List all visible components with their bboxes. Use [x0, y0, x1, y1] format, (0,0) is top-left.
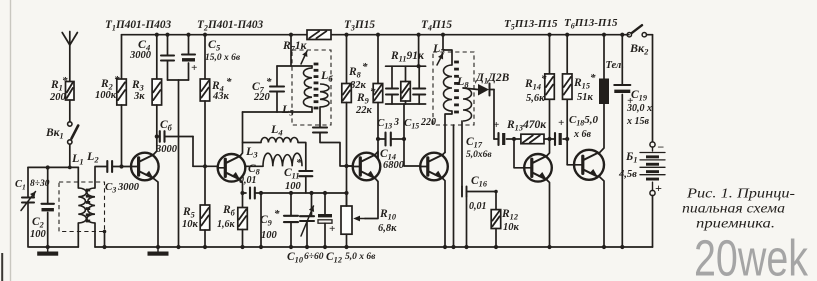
capacitor C1 variable — [27, 168, 29, 198]
wire T4 emitter down — [443, 178, 445, 247]
svg-text:Тел.: Тел. — [606, 60, 624, 71]
transistor T3 — [353, 153, 381, 181]
wire group to T4 base — [403, 104, 405, 166]
wire tank bottom — [277, 111, 312, 113]
shield box L1 L2 — [59, 182, 105, 232]
svg-text:+: + — [558, 117, 564, 129]
svg-text:5,0 х 6в: 5,0 х 6в — [345, 252, 376, 262]
wiper arrow R10 — [356, 218, 365, 220]
transistor T2 — [218, 154, 246, 182]
wire diode down to detector node — [493, 90, 495, 140]
wire to T5 base — [514, 139, 524, 168]
wire T3 base — [347, 165, 353, 167]
wire T6 base — [567, 164, 575, 166]
switch Vk2 — [627, 33, 631, 37]
svg-text:0,01: 0,01 — [239, 175, 257, 186]
inductor L7 — [444, 65, 453, 111]
capacitor C10 variable — [311, 193, 313, 216]
resistor R12 — [495, 192, 497, 210]
inductor L5 — [303, 68, 312, 107]
svg-text:3: 3 — [393, 117, 399, 128]
capacitor C18 electrolytic — [547, 137, 551, 141]
wire T6 emitter down — [598, 176, 604, 247]
svg-text:*: * — [590, 72, 596, 84]
resistor R7 — [307, 30, 331, 40]
svg-text:*: * — [541, 73, 547, 85]
svg-text:43к: 43к — [212, 91, 230, 102]
wire C4 C5 junction drop — [168, 79, 189, 81]
core L5-L6 — [314, 63, 319, 66]
svg-text:Д1Д2В: Д1Д2В — [475, 72, 510, 86]
capacitor C7 — [276, 92, 278, 113]
svg-text:100к: 100к — [95, 90, 117, 101]
svg-text:51к: 51к — [577, 92, 594, 103]
wire drop at 261 — [260, 193, 262, 247]
svg-text:3000: 3000 — [129, 50, 152, 61]
wire T2 emitter down — [240, 180, 242, 193]
svg-text:*: * — [362, 61, 368, 73]
ground under C2 — [47, 247, 49, 252]
bias group C13 R11 C15 — [386, 65, 426, 67]
core L1-L2 — [86, 189, 90, 192]
wire AGC row — [261, 192, 347, 194]
inductor L6 — [320, 84, 329, 107]
wire top supply rail — [122, 34, 307, 36]
capacitor C6 — [159, 131, 161, 142]
capacitor C19 electrolytic — [620, 33, 624, 37]
scan artifact faint line — [10, 0, 12, 281]
svg-text:х 6в: х 6в — [573, 129, 592, 140]
wire bottom ground rail — [29, 246, 78, 248]
capacitor C14 — [378, 138, 386, 140]
svg-text:3к: 3к — [133, 91, 145, 102]
transistor T1 — [131, 153, 159, 181]
capacitor C16 — [461, 187, 463, 197]
resistor R3 — [155, 33, 159, 37]
svg-text:*: * — [226, 76, 232, 88]
core L7-L8 — [454, 61, 459, 64]
wire tank top row — [28, 166, 78, 168]
capacitor C11 — [305, 145, 307, 171]
wire tank top to rail — [277, 65, 312, 67]
wire T2 base row — [193, 165, 218, 167]
IF transformer 1 shield box — [292, 50, 331, 125]
potentiometer R10 — [341, 206, 352, 234]
wire T4 collector — [443, 152, 445, 154]
resistor R9 — [376, 33, 380, 37]
svg-text:Рис. 1. Принци-: Рис. 1. Принци- — [686, 187, 796, 202]
svg-text:+: + — [191, 62, 197, 74]
capacitor C12 electrolytic — [324, 193, 326, 215]
resistor R14 — [547, 33, 551, 37]
resistor R4 — [203, 33, 207, 37]
svg-text:*: * — [370, 86, 376, 98]
capacitor C15 — [418, 66, 420, 88]
wire T1 collector — [153, 151, 157, 155]
capacitor C13 — [391, 66, 393, 88]
wire T3 collector up — [375, 152, 378, 159]
resistor R1 — [66, 82, 75, 101]
capacitor C4 — [165, 33, 169, 37]
svg-text:100: 100 — [285, 181, 302, 192]
svg-text:82к: 82к — [350, 80, 367, 91]
tuning arrow L7 — [437, 54, 443, 66]
wire T3 emitter to R10 wiper — [365, 178, 378, 218]
svg-text:R71к: R71к — [282, 40, 308, 54]
svg-text:10к: 10к — [503, 222, 520, 233]
resistor R13 — [521, 134, 544, 144]
wire battery column — [652, 35, 654, 142]
wire shield ground drop — [104, 232, 106, 248]
wire L8 bottom down — [461, 121, 463, 187]
svg-text:−: − — [657, 140, 664, 154]
svg-text:200: 200 — [49, 92, 67, 103]
svg-text:22к: 22к — [355, 105, 373, 116]
svg-text:4,5в: 4,5в — [618, 169, 637, 180]
inductor L3 — [246, 165, 264, 167]
svg-text:+: + — [655, 181, 662, 195]
transistor T4 — [420, 153, 448, 181]
wire T5 collector up — [547, 99, 550, 156]
svg-text:пиальная схема: пиальная схема — [682, 202, 785, 217]
wire T1 base — [112, 166, 131, 168]
capacitor C17 electrolytic — [497, 133, 499, 145]
svg-text:*: * — [296, 157, 302, 169]
capacitor C3 — [106, 161, 108, 172]
resistor R6 — [242, 193, 244, 208]
svg-text:*: * — [114, 74, 120, 86]
svg-text:5,0х6в: 5,0х6в — [466, 150, 492, 160]
capacitor C5 electrolytic — [186, 33, 190, 37]
tuning arrow L5 — [301, 51, 307, 64]
inductor L8 — [463, 88, 472, 121]
svg-text:3000: 3000 — [155, 144, 178, 155]
inductor L1 — [77, 167, 79, 188]
svg-text:20wek: 20wek — [694, 230, 808, 281]
svg-text:+: + — [493, 119, 499, 131]
svg-text:*: * — [62, 75, 68, 87]
svg-text:100: 100 — [261, 230, 278, 241]
svg-text:220: 220 — [420, 117, 436, 128]
svg-text:10к: 10к — [182, 219, 199, 230]
wire T5 emitter down — [547, 180, 550, 247]
svg-text:5,6к: 5,6к — [526, 93, 545, 104]
inductor L2 — [95, 167, 107, 189]
wire group feed from rail — [417, 33, 421, 37]
svg-text:8÷30: 8÷30 — [30, 179, 50, 189]
svg-text:Т4П15: Т4П15 — [421, 19, 452, 33]
diode D1 D2V — [463, 88, 478, 90]
transistor T5 — [524, 154, 552, 182]
headphone Tel — [602, 33, 606, 37]
svg-text:Т1П401-П403: Т1П401-П403 — [105, 19, 172, 33]
resistor R8 — [344, 33, 348, 37]
wire L4 right to C11 column — [298, 143, 306, 146]
svg-text:15,0 х 6в: 15,0 х 6в — [205, 53, 241, 63]
wire T2 collector to tank — [243, 111, 278, 113]
resistor R5 — [204, 166, 206, 205]
svg-text:*: * — [274, 208, 280, 220]
svg-text:100: 100 — [30, 229, 47, 240]
capacitor C9 — [290, 193, 292, 216]
svg-text:220: 220 — [253, 92, 271, 103]
ground under T1 — [157, 247, 159, 252]
svg-text:6,8к: 6,8к — [378, 223, 397, 234]
svg-text:30,0 х: 30,0 х — [626, 103, 652, 114]
wire shield2 ground drop — [453, 125, 455, 247]
svg-text:0,01: 0,01 — [469, 201, 487, 212]
wire T1 emitter down — [153, 178, 158, 247]
capacitor C8 — [243, 192, 247, 194]
resistor R2 — [121, 35, 123, 79]
capacitor C2 — [47, 168, 49, 204]
svg-text:С185,0: С185,0 — [569, 114, 598, 128]
resistor R11 — [401, 82, 411, 102]
battery B1 — [650, 142, 655, 147]
wire T6 collector up — [598, 104, 604, 154]
wire T2 collector up — [240, 112, 242, 156]
svg-text:R13470к: R13470к — [506, 119, 547, 133]
svg-text:*: * — [266, 76, 272, 88]
antenna W1 — [69, 32, 71, 82]
svg-text:3000: 3000 — [117, 182, 140, 193]
svg-text:+: + — [329, 223, 335, 235]
svg-text:6÷60: 6÷60 — [304, 252, 324, 262]
detector row C17 R13 C18 — [494, 138, 499, 140]
svg-text:Т2П401-П403: Т2П401-П403 — [197, 19, 264, 33]
capacitor under box — [319, 107, 321, 128]
svg-text:R1191к: R1191к — [390, 50, 425, 64]
resistor R15 — [565, 33, 569, 37]
transistor T6 — [574, 150, 604, 180]
svg-text:1,6к: 1,6к — [217, 219, 236, 230]
switch Vk1 — [69, 100, 71, 122]
svg-text:Т3П15: Т3П15 — [344, 19, 375, 33]
svg-text:х 15в: х 15в — [626, 116, 650, 127]
IF transformer 2 shield box — [433, 52, 474, 125]
inductor L4 — [261, 137, 298, 142]
svg-text:6800: 6800 — [383, 160, 405, 171]
